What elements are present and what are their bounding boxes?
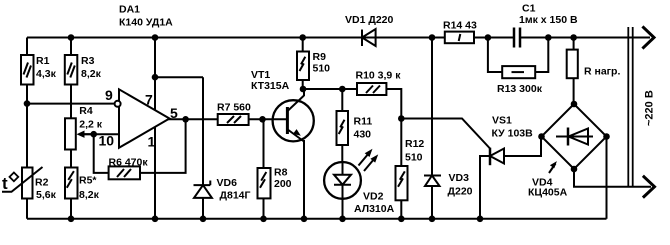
svg-text:R13 300к: R13 300к	[497, 83, 543, 95]
svg-text:9: 9	[105, 87, 113, 103]
svg-text:430: 430	[354, 129, 372, 141]
svg-text:Д814Г: Д814Г	[220, 190, 251, 202]
svg-text:VD6: VD6	[217, 177, 238, 189]
svg-text:8,2к: 8,2к	[81, 68, 102, 80]
svg-text:R5*: R5*	[79, 175, 97, 187]
svg-text:R3: R3	[81, 55, 95, 67]
svg-text:Д220: Д220	[448, 185, 473, 197]
svg-text:5,6к: 5,6к	[36, 189, 57, 201]
svg-text:R1: R1	[36, 55, 50, 67]
svg-text:КТ315А: КТ315А	[251, 80, 290, 92]
svg-text:VD3: VD3	[449, 172, 470, 184]
svg-text:10: 10	[99, 133, 115, 149]
svg-text:t: t	[2, 174, 8, 193]
svg-text:R10 3,9 к: R10 3,9 к	[356, 70, 402, 82]
svg-text:VD2: VD2	[363, 191, 384, 203]
svg-text:АЛ310А: АЛ310А	[354, 203, 395, 215]
svg-text:1: 1	[148, 133, 156, 149]
svg-text:7: 7	[145, 92, 153, 108]
svg-text:DA1: DA1	[119, 4, 140, 16]
svg-text:R11: R11	[354, 116, 373, 128]
svg-text:510: 510	[313, 63, 331, 75]
svg-text:R2: R2	[35, 177, 49, 189]
svg-text:R4: R4	[79, 105, 93, 117]
svg-text:К140 УД1А: К140 УД1А	[119, 17, 173, 29]
svg-text:КЦ405А: КЦ405А	[528, 187, 568, 199]
svg-text:8,2к: 8,2к	[79, 189, 100, 201]
svg-text:КУ 103В: КУ 103В	[492, 127, 534, 139]
svg-text:VD1 Д220: VD1 Д220	[345, 14, 394, 26]
svg-text:R14 43: R14 43	[443, 20, 477, 32]
svg-text:2,2 к: 2,2 к	[79, 119, 103, 131]
svg-text:4,3к: 4,3к	[36, 68, 57, 80]
svg-text:R12: R12	[405, 138, 424, 150]
svg-text:1мк x 150 В: 1мк x 150 В	[519, 14, 578, 26]
svg-text:C1: C1	[522, 3, 536, 15]
svg-text:R нагр.: R нагр.	[584, 66, 620, 78]
svg-text:VS1: VS1	[492, 115, 512, 127]
svg-text:200: 200	[274, 178, 292, 190]
svg-text:R9: R9	[313, 51, 327, 63]
svg-text:510: 510	[405, 152, 423, 164]
svg-text:~220 В: ~220 В	[643, 90, 655, 126]
svg-text:R8: R8	[274, 167, 288, 179]
svg-text:R7 560: R7 560	[217, 102, 251, 114]
svg-text:R6 470к: R6 470к	[109, 157, 149, 169]
svg-text:5: 5	[170, 105, 178, 121]
